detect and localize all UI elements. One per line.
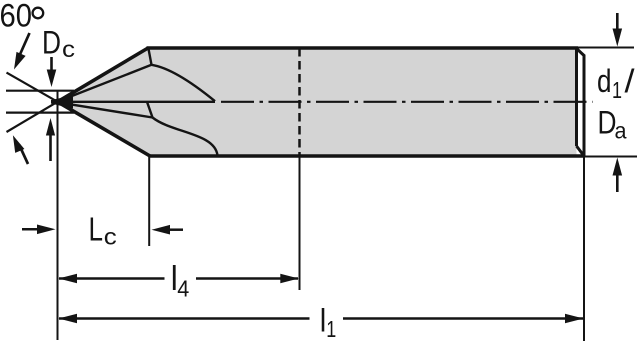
flute line upper straight [59,65,152,102]
shank end inner edge [575,48,578,146]
shank end bottom chamfer [577,146,585,156]
flute line lower straight [59,102,153,117]
left extension line (tip) [57,90,59,340]
D_c extension line bottom [6,111,74,113]
svg-text:1: 1 [612,77,622,103]
L_c right extension line [148,157,150,246]
tool body fill [58,48,577,156]
svg-text:/: / [625,63,635,99]
svg-text:4: 4 [177,276,189,302]
60-degree construction line lower (extension of top cone edge) [7,100,61,132]
D_c extension line top [6,90,74,92]
60-degree construction line upper (extension of bottom cone edge) [7,73,61,104]
D_c arrow up [49,135,52,161]
L_c dimension arrow left [22,228,39,231]
L_c dimension arrow right [168,228,183,231]
svg-text:1: 1 [326,316,336,342]
60-degree arrow lower [19,145,28,165]
l_4 dimension line [59,277,165,280]
l_1 dimension line [59,317,310,320]
D_c arrow down [50,57,53,71]
l_4 dashed face line [298,48,301,156]
svg-text:l: l [320,303,327,339]
svg-text:d: d [597,63,612,99]
svg-text:D: D [42,24,61,60]
body outline: bottom cone edge [58,102,151,156]
l_4 right extension line [299,156,301,290]
body outline: top cone edge [58,48,149,102]
flute curve lower [153,118,218,156]
body outline: bottom edge [149,154,585,157]
right top extension line [578,47,634,49]
shank end top chamfer [577,49,585,56]
svg-text:a: a [615,117,627,143]
flute steep link [147,102,153,118]
flute face edge upper [148,48,151,65]
60-degree arrow upper [20,33,30,56]
flute curve upper [152,65,216,101]
svg-text:c: c [62,36,75,62]
tip convergence wedge [51,96,73,109]
Da arrow up (bottom right) [616,174,619,192]
right bottom extension line [585,156,637,158]
shank end right edge [583,55,586,157]
svg-text:L: L [89,211,104,248]
right extension line (shank end) [583,157,585,342]
d1 arrow down (top right) [616,13,619,31]
flute axis line [58,101,216,103]
centerline dash-dot [221,101,593,103]
body outline: top edge [147,46,579,49]
svg-text:60: 60 [0,0,32,33]
svg-text:c: c [104,224,117,250]
